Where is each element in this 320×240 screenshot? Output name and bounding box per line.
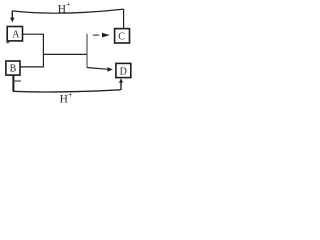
wire: A output right — [23, 33, 44, 35]
svg-text:C: C — [118, 32, 125, 43]
box B — [6, 61, 20, 75]
arrowhead into D — [107, 67, 112, 72]
box D — [116, 63, 131, 77]
svg-text:+: + — [66, 0, 71, 9]
wire: merge vertical — [42, 34, 44, 68]
wire: arrow into C left — [93, 34, 99, 36]
wire: B output right — [20, 66, 43, 68]
box C — [115, 29, 130, 43]
wire: branch vertical — [86, 34, 88, 68]
wire: short stub right of B vertical — [14, 80, 21, 82]
svg-text:A: A — [12, 29, 20, 40]
arrowhead into A top — [10, 18, 14, 23]
svg-text:D: D — [120, 66, 127, 77]
wire: B down to bottom line — [12, 75, 14, 91]
node: ink blob at A bottom-left corner — [6, 41, 9, 43]
svg-text:H: H — [60, 93, 68, 105]
svg-text:B: B — [10, 63, 17, 74]
wire: up into D bottom — [120, 83, 122, 90]
wire: top H+ line from A to C — [12, 9, 124, 13]
wire: bottom H+ line — [13, 90, 121, 92]
wire: arrow into D left — [87, 68, 108, 70]
arrowhead into C — [102, 33, 110, 38]
svg-text:+: + — [68, 91, 73, 100]
svg-text:H: H — [58, 3, 66, 15]
wire: vertical drop into box A — [11, 11, 13, 18]
wire: vertical into C top — [123, 9, 125, 29]
arrowhead into D bottom — [119, 78, 123, 83]
wire: middle horizontal to branch — [43, 53, 87, 55]
box A — [7, 27, 22, 41]
